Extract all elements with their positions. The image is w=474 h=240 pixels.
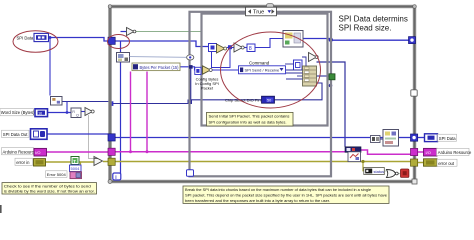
node: small blue glyph box above build node: [294, 60, 303, 70]
SPI Data Out label: [2, 130, 30, 137]
Arduino Resource terminal: [34, 148, 47, 156]
wire: top cluster chain in inner case: [216, 47, 218, 49]
comment: chunk explanation: [183, 186, 389, 203]
svg-text:SPI Data Out: SPI Data Out: [3, 132, 29, 137]
svg-text:error out: error out: [438, 161, 455, 166]
Error 5004 label: [46, 171, 68, 178]
wire: branch U below top cluster: [212, 49, 231, 68]
wire: build node to case border dot: [317, 62, 346, 147]
node: yellow triangle function: [217, 44, 227, 53]
word size: quotient remainder node: [71, 108, 81, 118]
svg-text:SPI Data determins: SPI Data determins: [339, 15, 408, 24]
junction square top cluster 2: [228, 45, 232, 49]
wire: out tunnel to SPI Data indicator: [417, 137, 425, 139]
OR gate: [387, 170, 399, 178]
svg-text:SPI Data: SPI Data: [17, 36, 34, 41]
tunnel (white oval) on outer case left border: [187, 55, 194, 60]
wires into build node: [285, 57, 306, 79]
outer case structure: [190, 12, 332, 177]
boolean True constant: [71, 157, 79, 165]
G-TERMS placeholder: [0, 33, 472, 166]
wire: word size line across to chip select: [62, 100, 262, 104]
tunnel: Arduino Resource right border: [411, 148, 418, 155]
SPI Data control terminal: [34, 33, 49, 41]
annotation ellipse around loop tunnel: [108, 35, 130, 49]
SPI Data Out terminal: [31, 129, 48, 140]
svg-text:Q: Q: [76, 113, 79, 117]
svg-text:error in: error in: [16, 160, 30, 165]
wire: boolean iteration compare to case selector: [136, 31, 201, 33]
error in terminal: [34, 159, 46, 166]
tunnel: error out right border: [411, 159, 418, 166]
error ring constant: [70, 172, 82, 179]
wire: R-Q node to comparator: [81, 111, 85, 113]
junction dot on SPI data wire: [329, 38, 333, 42]
junction dot error: [361, 160, 364, 163]
wire: SPI Data into inner case: [112, 41, 209, 47]
while loop: [110, 7, 415, 182]
svg-text:SPI configuration info as well: SPI configuration info as well as data b…: [209, 119, 287, 124]
junction square on case border for packet wire: [189, 65, 193, 69]
wire: build node output stub: [317, 75, 331, 77]
svg-text:Error 5004: Error 5004: [47, 172, 67, 177]
tunnel: SPI data top right: [409, 37, 416, 44]
node: triangle function 2: [234, 43, 244, 52]
wire: Bytes Per Packet to config triangle: [180, 67, 195, 70]
word size: array size node: [51, 97, 63, 106]
tunnel: Arduino Resource on loop border: [108, 148, 115, 155]
chip select DIO constant: [262, 96, 275, 103]
wire: magenta vertical riser 1: [130, 72, 132, 152]
small index node before subVI: [371, 136, 381, 143]
while loop bottom-left corner node: [108, 180, 112, 184]
junction dot magenta 1: [129, 150, 132, 153]
wire: status to OR gate: [384, 170, 387, 172]
wire: packet size drop along border: [190, 68, 192, 100]
wire: blue tunnel dot mid case border: [330, 62, 332, 86]
numeric constant 5004: [70, 165, 82, 172]
while loop top-right corner node: [413, 5, 417, 9]
wire: light path line from subVI to case tunnel: [130, 56, 187, 59]
node: small converter before config triangle: [195, 67, 201, 74]
while loop top knob: [267, 4, 274, 9]
svg-text:been transferred and the respo: been transferred and the responses are b…: [185, 198, 330, 203]
svg-text:Command: Command: [249, 61, 270, 66]
wire: error to out tunnel: [363, 162, 424, 163]
wire: boolean comparator down to select: [89, 115, 94, 159]
wire: branch down from tunnel to iteration area: [120, 41, 122, 175]
svg-text:16: 16: [38, 111, 42, 115]
Word Size label: [0, 109, 35, 116]
wire: error ring up to merge: [74, 162, 81, 175]
wire: SPI Data control to loop tunnel: [49, 38, 112, 42]
wire: SPI Data Out control to tunnel: [47, 133, 111, 135]
wire: error across loop: [103, 161, 363, 163]
Arduino Resource label: [2, 148, 37, 155]
wire: subVI to SPI Data out tunnel: [398, 137, 413, 139]
svg-text:5004: 5004: [71, 166, 81, 171]
svg-text:T: T: [73, 159, 76, 164]
wire segment: [243, 47, 247, 49]
G-WIRES placeholder: [45, 32, 425, 175]
tunnel: word size on loop border: [109, 101, 114, 106]
Bytes Per Packet labelled constant: [132, 63, 180, 71]
comment: send initial packet: [207, 112, 294, 126]
svg-text:True: True: [253, 10, 264, 16]
wire: SPI Data blue main horizontal inside loop: [111, 137, 383, 139]
case selector label "True": [246, 7, 277, 16]
status unbundle node: [364, 168, 385, 175]
select node near error in: [94, 157, 103, 166]
annotation ellipse around SPI Data control: [13, 31, 58, 53]
wire: small node into chunk subVI: [380, 138, 383, 140]
subVI U1 config packet: [283, 31, 303, 48]
svg-text:Word Size (Bytes): Word Size (Bytes): [1, 110, 35, 115]
error in label: [15, 158, 33, 165]
comment: divisibility check: [2, 183, 97, 194]
wire to subVI U1: [255, 39, 283, 48]
junction dot word size: [66, 111, 69, 114]
svg-text:status: status: [374, 169, 385, 174]
word size: equal zero comparator: [85, 108, 94, 116]
svg-text:I/O: I/O: [426, 150, 431, 155]
G-NODES placeholder: [46, 28, 409, 182]
loop condition stop terminal: [401, 169, 409, 177]
wire: word size branch up: [66, 102, 68, 113]
config bytes triangle: [203, 66, 213, 74]
svg-text:SPI Data: SPI Data: [439, 136, 456, 141]
node: to-byte conversion triangle: [309, 53, 319, 62]
Arduino Resource indicator terminal: [424, 148, 438, 156]
Arduino Resource indicator label: [437, 148, 472, 155]
junction dot on SPI data wire: [49, 36, 52, 39]
wire: error in control to merge node: [45, 161, 94, 163]
SPI Data indicator terminal: [425, 134, 438, 142]
inner case structure: [202, 14, 328, 126]
wire: word size terminal horizontal: [47, 112, 71, 114]
tunnel: SPI Data out right border: [411, 134, 418, 141]
svg-text:SPI Send / Receive: SPI Send / Receive: [245, 68, 280, 73]
svg-text:is divisible by the word size.: is divisible by the word size. If not th…: [4, 189, 95, 194]
SPI Data indicator label: [438, 134, 457, 141]
svg-text:SPI packet. This depend on th: SPI packet. This depend on the packet si…: [185, 192, 388, 197]
junction dot chip select left: [188, 100, 193, 105]
junction dot magenta 2: [146, 150, 149, 153]
wire: Arduino Resource control to tunnel: [46, 151, 111, 153]
node: small box 1 inner case top row: [209, 44, 217, 52]
chunk helper icon box: [348, 152, 361, 162]
wire: iteration vertical to compare node: [121, 31, 127, 33]
wire: subVI out to case tunnel and loop border: [303, 39, 411, 41]
wire: magenta vertical riser 2: [146, 72, 148, 152]
iteration terminal i: [113, 173, 121, 181]
wire: Arduino Resource across loop: [111, 151, 345, 153]
svg-text:Bytes Per Packet (15): Bytes Per Packet (15): [140, 65, 179, 70]
svg-text:Send Inital SPI Packet. This: Send Inital SPI Packet. This packet cont…: [209, 114, 290, 119]
error out indicator terminal: [424, 159, 438, 166]
wire: config triangle to build node: [211, 69, 303, 71]
node: build array stack: [303, 66, 317, 86]
wire segment: [227, 47, 234, 49]
tunnel on outer case bottom-left: [187, 170, 194, 177]
subVI icon top-left in loop: [117, 53, 130, 63]
wire: SPI data branch down to array size node: [49, 38, 51, 96]
svg-text:Arduino Resource: Arduino Resource: [438, 150, 472, 155]
svg-text:8: 8: [249, 46, 252, 52]
Command enum constant: [239, 61, 286, 74]
wire: chip select constant to build node: [274, 83, 322, 100]
G-ANNOT placeholder: [13, 31, 321, 108]
page corner mark bottom-left: [0, 205, 2, 213]
wire: Arduino Resource jog after property node: [361, 150, 424, 154]
svg-text:I/O: I/O: [35, 150, 40, 155]
error out indicator label: [437, 159, 457, 166]
G-COMMENTS placeholder: [2, 15, 408, 204]
svg-text:Packet: Packet: [201, 86, 214, 91]
Word Size terminal: [35, 109, 48, 117]
equal-zero comparator top-left in loop: [127, 28, 136, 36]
junction square top cluster 1: [210, 45, 214, 49]
tunnel: error in on loop border: [108, 158, 115, 165]
wire: OR gate to stop terminal: [397, 173, 401, 175]
tunnel: SPI Data Out on loop border: [108, 134, 115, 141]
wire: error branch down to status unbundle: [363, 162, 365, 171]
svg-text:Break the SPI data into chunks: Break the SPI data into chunks based on …: [185, 187, 372, 192]
svg-text:Arduino Resource: Arduino Resource: [3, 149, 37, 154]
green boolean tunnel on case border: [329, 74, 335, 80]
property node navy bar: [345, 147, 361, 153]
while loop top-left corner node: [108, 5, 112, 9]
tunnel: SPI Data on loop border: [108, 37, 115, 44]
tunnel (white) on right loop border: [411, 90, 417, 96]
svg-text:50: 50: [267, 98, 271, 102]
node: small blue box 2: [247, 44, 255, 52]
chunk subVI icon: [383, 130, 399, 147]
while loop bottom-right corner node: [412, 179, 417, 184]
G-FRAMES placeholder: [0, 4, 417, 213]
svg-text:R: R: [72, 110, 75, 114]
junction dot case blue: [329, 84, 333, 88]
svg-text:SPI Read size.: SPI Read size.: [339, 24, 392, 33]
annotation ellipse around packet cluster: [221, 32, 321, 108]
